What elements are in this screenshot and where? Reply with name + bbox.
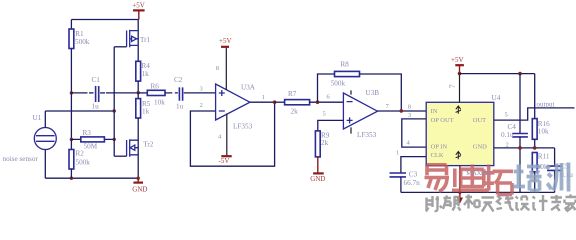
resistor R2 bbox=[69, 139, 90, 178]
power +5V (U3A pin 8) bbox=[216, 37, 232, 90]
svg-text:500k: 500k bbox=[331, 79, 346, 87]
svg-text:LF353: LF353 bbox=[233, 123, 253, 131]
node K (+5V rail junction) bbox=[458, 72, 462, 76]
resistor R4 bbox=[136, 61, 150, 92]
svg-text:-5V: -5V bbox=[219, 157, 230, 165]
capacitor C4 bbox=[501, 74, 528, 193]
svg-text:1k: 1k bbox=[142, 108, 150, 116]
capacitor C3 bbox=[390, 171, 421, 193]
transistor Tr1 bbox=[114, 20, 150, 62]
svg-text:2k: 2k bbox=[291, 108, 299, 116]
svg-text:OUT: OUT bbox=[473, 117, 486, 124]
svg-text:GND: GND bbox=[132, 186, 147, 194]
svg-text:+5V: +5V bbox=[451, 56, 464, 64]
svg-text:GND: GND bbox=[473, 143, 487, 150]
svg-text:C2: C2 bbox=[174, 76, 183, 84]
pin 8 label (U4 IN) bbox=[408, 103, 411, 110]
resistor R6 bbox=[138, 83, 178, 107]
svg-text:CLK: CLK bbox=[431, 152, 444, 159]
node G (Tr2 source / GND) bbox=[137, 177, 140, 180]
svg-text:1k: 1k bbox=[142, 70, 150, 78]
svg-text:5: 5 bbox=[505, 111, 508, 118]
power +5V (left) bbox=[132, 2, 145, 20]
svg-text:R3: R3 bbox=[83, 129, 92, 137]
capacitor C1 bbox=[71, 76, 138, 111]
watermark red logo bbox=[425, 165, 514, 195]
wire sensor top to gate bus bbox=[45, 110, 114, 112]
clock arrow glyph (bottom) bbox=[456, 152, 461, 160]
pin 3 label bbox=[200, 86, 203, 93]
pin 2 GND wire bbox=[494, 142, 555, 149]
pin 5 label bbox=[323, 110, 326, 117]
IC U4 part number bbox=[466, 170, 491, 177]
svg-text:MAX292: MAX292 bbox=[466, 170, 491, 177]
node M (C4 bottom junction) bbox=[518, 146, 522, 150]
ground arrow (U4 pin 6) bbox=[457, 166, 463, 204]
svg-text:R6: R6 bbox=[151, 83, 160, 91]
node O (gnd line / rail) bbox=[458, 191, 461, 194]
node A (R1/C1 junction) bbox=[70, 91, 73, 94]
node E (R3 right / gate bus) bbox=[113, 138, 116, 141]
wire bottom rail bbox=[401, 191, 555, 193]
svg-text:C1: C1 bbox=[92, 76, 101, 84]
resistor R3 bbox=[71, 129, 114, 150]
svg-text:Tr1: Tr1 bbox=[140, 36, 151, 44]
wire +5V rail to divider bbox=[460, 73, 535, 75]
svg-text:output: output bbox=[537, 100, 555, 108]
pin 2 label bbox=[200, 102, 203, 109]
svg-text:1: 1 bbox=[396, 150, 399, 157]
svg-text:OP IN: OP IN bbox=[431, 143, 448, 150]
clock arrow glyph (top) bbox=[456, 106, 461, 114]
svg-text:10k: 10k bbox=[154, 99, 165, 107]
wire U3B output bbox=[378, 110, 427, 112]
resistor R7 bbox=[275, 90, 344, 116]
IC U4 bbox=[426, 94, 500, 166]
svg-text:R4: R4 bbox=[142, 62, 151, 70]
svg-text:R1: R1 bbox=[75, 30, 84, 38]
svg-text:5: 5 bbox=[323, 110, 326, 117]
svg-text:0.1u: 0.1u bbox=[501, 131, 514, 139]
svg-text:8: 8 bbox=[408, 103, 411, 110]
node C (bus/sensor junction) bbox=[113, 109, 116, 112]
resistor R9 bbox=[315, 131, 329, 157]
node N (divider mid junction) bbox=[533, 146, 537, 150]
power +5V (U4 pin 7) bbox=[448, 56, 464, 102]
watermark gray slogan bbox=[426, 195, 576, 212]
svg-text:U3B: U3B bbox=[366, 89, 380, 97]
svg-text:2k: 2k bbox=[321, 139, 329, 147]
svg-text:+5V: +5V bbox=[132, 2, 145, 10]
node D (R2 bottom junction) bbox=[70, 177, 73, 180]
svg-text:R2: R2 bbox=[76, 150, 85, 158]
node B (R3 left junction) bbox=[70, 138, 73, 141]
svg-text:1u: 1u bbox=[92, 103, 100, 111]
node I (R8 tap junction) bbox=[316, 100, 320, 104]
svg-text:1u: 1u bbox=[176, 103, 184, 111]
wire top rail bbox=[71, 19, 138, 21]
op-amp U3A bbox=[216, 84, 256, 131]
power -5V (U3A pin 4) bbox=[218, 114, 232, 165]
wire CLK pin bbox=[396, 150, 426, 173]
svg-text:1: 1 bbox=[262, 94, 265, 101]
wire gate bus bbox=[113, 47, 115, 156]
svg-text:2: 2 bbox=[506, 142, 509, 149]
op-amp U3B bbox=[343, 89, 389, 139]
resistor R1 bbox=[69, 20, 90, 93]
svg-text:7: 7 bbox=[448, 84, 457, 88]
ground GND (left) bbox=[132, 178, 147, 193]
svg-text:LF353: LF353 bbox=[357, 131, 377, 139]
pin 6 label bbox=[327, 94, 331, 101]
svg-text:IN: IN bbox=[431, 108, 438, 115]
svg-text:50M: 50M bbox=[84, 143, 98, 151]
wire OP OUT to OP IN bbox=[402, 112, 426, 147]
svg-text:R11: R11 bbox=[538, 152, 550, 160]
capacitor C2 bbox=[174, 76, 216, 111]
svg-text:C4: C4 bbox=[508, 123, 517, 131]
resistor R8 bbox=[318, 60, 402, 111]
svg-text:GND: GND bbox=[310, 175, 325, 183]
svg-text:10k: 10k bbox=[538, 127, 549, 135]
svg-text:R7: R7 bbox=[288, 90, 297, 98]
svg-text:U1: U1 bbox=[33, 114, 42, 122]
transistor Tr2 bbox=[114, 139, 154, 178]
resistor R11 bbox=[532, 152, 550, 192]
svg-text:noise sensor: noise sensor bbox=[3, 155, 39, 163]
resistor R16 bbox=[532, 74, 550, 148]
svg-text:U3A: U3A bbox=[241, 84, 256, 92]
svg-text:3: 3 bbox=[200, 86, 203, 93]
output label bbox=[537, 100, 555, 108]
node F (R4/R5/R6/C1 junction) bbox=[137, 91, 140, 94]
svg-text:R8: R8 bbox=[340, 60, 349, 68]
wire bottom ground rail bbox=[45, 177, 138, 179]
svg-text:66.7n: 66.7n bbox=[404, 179, 421, 187]
svg-text:500k: 500k bbox=[76, 159, 91, 167]
svg-text:OP OUT: OP OUT bbox=[431, 117, 454, 124]
svg-text:3: 3 bbox=[408, 112, 411, 119]
resistor R5 bbox=[136, 93, 151, 140]
node L (C4 top junction) bbox=[518, 72, 522, 76]
capacitor C5 bbox=[547, 148, 573, 193]
svg-text:Tr2: Tr2 bbox=[143, 141, 154, 149]
pin 1 output wire bbox=[250, 94, 275, 102]
svg-text:U4: U4 bbox=[492, 94, 501, 102]
node J (U3B out junction) bbox=[400, 109, 404, 113]
node H (U3A out junction) bbox=[273, 100, 277, 104]
microphone U1 bbox=[3, 111, 57, 178]
svg-text:2: 2 bbox=[200, 102, 203, 109]
svg-text:8: 8 bbox=[216, 65, 219, 72]
svg-text:C3: C3 bbox=[409, 171, 418, 179]
wire R1 column down bbox=[70, 93, 72, 139]
svg-text:+5V: +5V bbox=[219, 37, 232, 45]
ground GND (R9) bbox=[310, 157, 325, 183]
wire pin5 to R9 bbox=[318, 120, 344, 130]
pin 5 OUT wire bbox=[494, 108, 575, 120]
svg-text:500k: 500k bbox=[75, 38, 90, 46]
wire U3A feedback loop bbox=[190, 102, 274, 166]
